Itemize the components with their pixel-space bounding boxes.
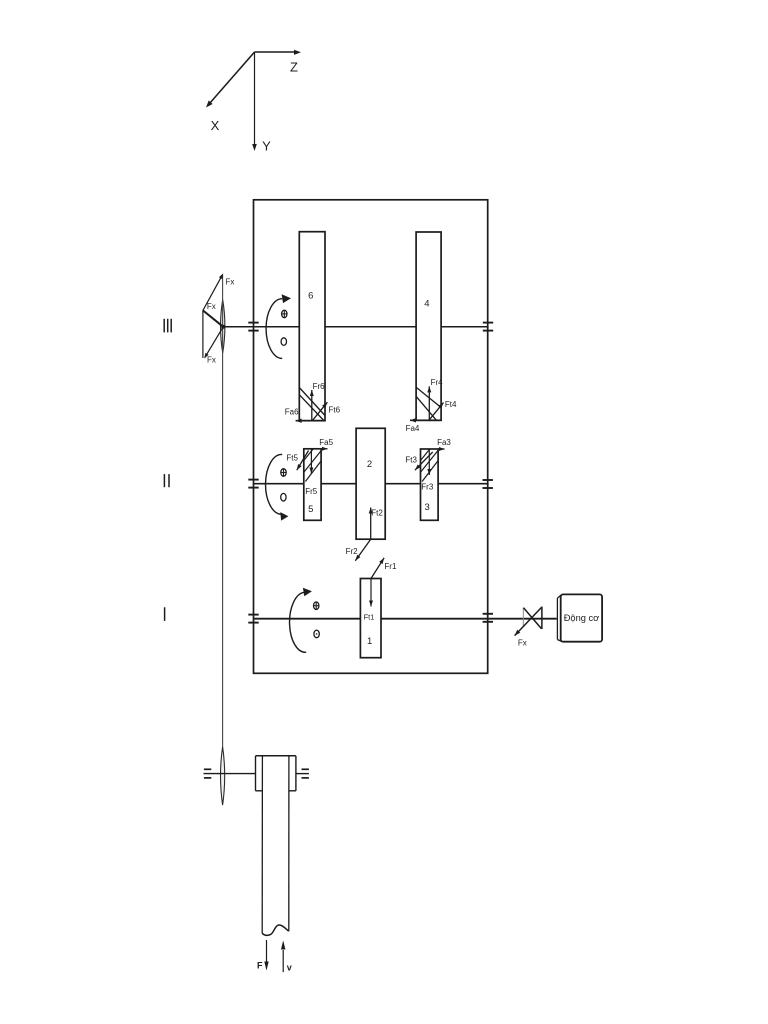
svg-text:X: X bbox=[211, 118, 220, 133]
svg-text:1: 1 bbox=[367, 636, 372, 647]
svg-text:Ft5: Ft5 bbox=[286, 454, 298, 463]
svg-text:6: 6 bbox=[308, 290, 313, 301]
svg-text:Fx: Fx bbox=[207, 355, 216, 364]
svg-text:Ft4: Ft4 bbox=[445, 400, 457, 409]
svg-text:Fx: Fx bbox=[518, 639, 527, 648]
svg-text:5: 5 bbox=[308, 504, 313, 515]
svg-text:Fa4: Fa4 bbox=[406, 424, 420, 433]
svg-text:3: 3 bbox=[425, 502, 430, 513]
svg-text:Fa6: Fa6 bbox=[285, 407, 299, 416]
svg-text:Fx: Fx bbox=[207, 302, 216, 311]
svg-text:v: v bbox=[287, 963, 292, 973]
svg-text:Fr6: Fr6 bbox=[313, 382, 326, 391]
svg-text:2: 2 bbox=[367, 459, 372, 470]
svg-text:Z: Z bbox=[290, 60, 298, 75]
svg-text:Động cơ: Động cơ bbox=[564, 613, 600, 623]
svg-text:Fr2: Fr2 bbox=[346, 547, 359, 556]
svg-text:F: F bbox=[257, 961, 263, 971]
svg-text:Fr5: Fr5 bbox=[305, 487, 318, 496]
svg-text:4: 4 bbox=[424, 299, 429, 310]
svg-text:Ft6: Ft6 bbox=[329, 405, 341, 414]
svg-text:Ft3: Ft3 bbox=[405, 456, 417, 465]
svg-text:Fr3: Fr3 bbox=[421, 483, 434, 492]
svg-text:Fa5: Fa5 bbox=[319, 438, 333, 447]
svg-text:Fr1: Fr1 bbox=[384, 562, 397, 571]
svg-text:Fx: Fx bbox=[226, 277, 235, 286]
svg-text:Ft2: Ft2 bbox=[371, 509, 383, 518]
svg-text:Ft1: Ft1 bbox=[364, 613, 375, 622]
svg-text:Y: Y bbox=[262, 139, 271, 154]
svg-text:Fa3: Fa3 bbox=[437, 438, 451, 447]
svg-text:Fr4: Fr4 bbox=[431, 378, 444, 387]
